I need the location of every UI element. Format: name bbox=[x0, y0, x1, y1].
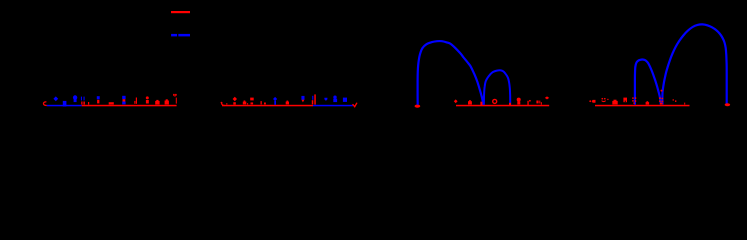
panel4 red marks at Y junction bbox=[659, 90, 663, 105]
panel3 red square at right foot bbox=[509, 103, 511, 106]
panel1 blue circle marker bbox=[73, 95, 77, 99]
legend red solid line bbox=[171, 11, 190, 13]
panel4 red dot pair bbox=[673, 99, 677, 102]
panel3 small red tick bbox=[541, 102, 542, 104]
panel4 red baseline bbox=[595, 105, 690, 107]
panel1 red dots cluster bbox=[173, 94, 177, 96]
panel2 blue triangle marker bbox=[324, 98, 327, 101]
panel1 stack blue over red bbox=[97, 96, 100, 99]
panel2 junction red ticks bbox=[312, 96, 313, 100]
panel2 red bump under diamond bbox=[233, 102, 236, 104]
panel2 blue floating square bbox=[343, 98, 347, 102]
panel1 red house 1 bbox=[155, 100, 159, 105]
panel2 blue baseline segment bbox=[313, 105, 353, 107]
panel3 red diamond at end bbox=[545, 96, 549, 99]
panel1 red junction ticks bbox=[81, 102, 85, 105]
panel3 small arc bbox=[484, 70, 511, 105]
panel2 small red ticks bbox=[226, 103, 248, 105]
panel3 left foot red ellipse bbox=[415, 105, 421, 108]
panel2 red baseline segment bbox=[222, 105, 313, 107]
panel3 red house bbox=[468, 100, 472, 104]
panel4 red house bbox=[646, 101, 650, 104]
panel1 small red tick bbox=[88, 102, 89, 105]
panel4 small red tick bbox=[684, 103, 685, 105]
panel3 red donut marker bbox=[493, 99, 497, 103]
panel1 blue tick pair bbox=[81, 97, 85, 101]
panel1 blue baseline segment bbox=[47, 105, 82, 107]
panel4 big red house bbox=[612, 100, 617, 105]
panel1 red wide rect marker bbox=[109, 102, 114, 104]
panel3 red baseline bbox=[456, 105, 549, 107]
panel2 red house bbox=[243, 101, 247, 105]
panel4 red dots on small arc left foot bbox=[632, 97, 636, 104]
panel4 start dot bbox=[589, 100, 591, 102]
panel2 red diamond marker bbox=[233, 97, 237, 101]
panel1 blue diamond marker bbox=[53, 96, 58, 101]
panel2 red bump bbox=[251, 102, 254, 104]
panel2 red floating square bbox=[250, 98, 254, 101]
panel1 start hook bbox=[43, 102, 46, 106]
panel2 blue cross marker bbox=[273, 97, 277, 101]
panel1 stack blue red blue bbox=[122, 96, 125, 99]
panel4 small arc bbox=[635, 60, 661, 105]
panel4 big arc bbox=[662, 24, 726, 104]
panel1 red circle over square bbox=[146, 96, 149, 99]
panel2 red tick b bbox=[264, 103, 266, 105]
panel1 red baseline segment bbox=[82, 105, 177, 107]
panel1 end tick bbox=[176, 98, 177, 104]
panel4 right foot red ellipse bbox=[725, 103, 730, 106]
panel2 start hook bbox=[222, 102, 225, 105]
panel3 red dot bbox=[529, 100, 531, 102]
panel3 red square at arc junction bbox=[480, 102, 482, 105]
panel1 red tick pair bbox=[134, 98, 137, 104]
panel4 notched red square bbox=[623, 98, 627, 103]
panel3 red tick bbox=[527, 101, 528, 106]
panel2 end hook bbox=[353, 103, 357, 107]
panel3 blue merged arc feet column bbox=[482, 97, 485, 105]
panel4 dots and smile marker bbox=[601, 98, 608, 100]
panel3 red marks pair bbox=[536, 101, 540, 104]
legend blue dashed line bbox=[171, 34, 190, 37]
panel1 red house 2 bbox=[165, 99, 169, 104]
panel3 red diamond marker bbox=[454, 99, 458, 103]
panel4 start arrow marker bbox=[592, 100, 596, 103]
panel2 blue circle over square bbox=[333, 96, 336, 99]
panel3 big arc bbox=[418, 41, 484, 105]
panel2 stack blue over red bbox=[301, 96, 304, 100]
panel2 red tick a bbox=[261, 101, 262, 104]
panel2 red house small bbox=[286, 101, 289, 105]
panel1 blue square marker bbox=[63, 101, 67, 107]
panel3 red house with tall cap bbox=[517, 98, 521, 105]
